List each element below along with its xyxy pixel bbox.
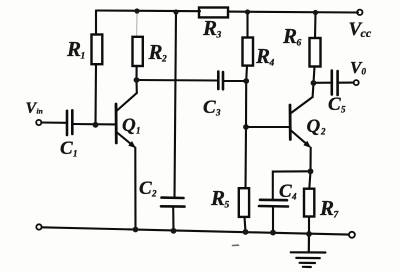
- svg-text:5: 5: [225, 201, 230, 211]
- node R6 bottom: [311, 80, 317, 86]
- resistor R6: [310, 38, 321, 67]
- node rail ground: [306, 231, 312, 237]
- svg-text:C: C: [279, 181, 292, 202]
- svg-text:1: 1: [81, 52, 86, 62]
- svg-text:R: R: [210, 186, 225, 210]
- wire base node down to R5: [244, 127, 247, 188]
- capacitor C4: [259, 200, 288, 207]
- node Q1 base: [93, 122, 99, 128]
- svg-text:R: R: [282, 24, 297, 48]
- resistor R2: [133, 37, 143, 66]
- wire R6 bottom: [314, 67, 315, 84]
- wire R2 top stub: [136, 13, 138, 37]
- node top rail R6: [313, 10, 318, 15]
- wire R2 bottom to C3: [137, 79, 218, 82]
- wire C2 bottom: [172, 207, 174, 231]
- resistor R7: [304, 189, 314, 217]
- svg-text:Q: Q: [307, 116, 321, 137]
- wire smudge mark: [233, 244, 239, 246]
- wire R1 bottom: [94, 64, 97, 125]
- wire R6 top stub: [314, 13, 317, 39]
- wire Q1 emitter down: [134, 148, 136, 230]
- svg-text:Q: Q: [122, 115, 136, 136]
- resistor R3: [199, 8, 228, 18]
- svg-text:R: R: [319, 196, 334, 220]
- svg-text:2: 2: [151, 189, 157, 199]
- capacitor C2: [161, 198, 185, 207]
- svg-text:R: R: [202, 16, 217, 40]
- node Q2 base tap: [243, 124, 249, 130]
- wire R4 bottom: [245, 66, 248, 81]
- node R2 bottom: [134, 77, 140, 83]
- node R4 bottom: [243, 78, 249, 84]
- transistor Q2: [290, 97, 313, 148]
- svg-text:C: C: [203, 97, 216, 118]
- svg-text:4: 4: [269, 59, 275, 69]
- node Q2 emitter: [308, 168, 314, 174]
- wire base node to Q2: [246, 126, 289, 128]
- terminal V0: [354, 80, 359, 85]
- svg-text:cc: cc: [361, 26, 372, 40]
- svg-text:6: 6: [297, 39, 302, 49]
- wire C4 bottom: [272, 207, 274, 233]
- wire Vin to C1: [41, 121, 66, 123]
- wire R5 bottom: [245, 217, 246, 232]
- svg-text:5: 5: [341, 105, 346, 115]
- node top rail center: [173, 9, 178, 14]
- wire top rail left segment: [96, 9, 200, 12]
- wire bottom rail: [42, 227, 349, 234]
- svg-text:0: 0: [362, 67, 367, 77]
- node rail C4: [270, 230, 276, 236]
- node rail Q1 emitter: [133, 227, 139, 233]
- node rail C2: [171, 228, 177, 234]
- svg-text:C: C: [328, 94, 341, 115]
- svg-text:R: R: [255, 44, 270, 68]
- terminal bottom right: [349, 232, 355, 238]
- wire Q2 node to C5: [314, 82, 332, 84]
- svg-text:7: 7: [334, 211, 340, 221]
- terminal bottom left: [36, 224, 41, 229]
- svg-text:1: 1: [136, 126, 141, 136]
- wire Q1 collector up: [135, 80, 137, 93]
- svg-text:2: 2: [320, 127, 326, 137]
- capacitor C1: [67, 110, 72, 135]
- wire R7 top stub: [309, 171, 310, 188]
- svg-text:3: 3: [215, 108, 221, 118]
- wire R4 top stub: [246, 12, 248, 38]
- wire C5 to V0 terminal: [339, 82, 354, 84]
- resistor R5: [239, 188, 249, 217]
- terminal Vcc: [357, 10, 362, 15]
- wire R1 top branch: [95, 11, 97, 35]
- svg-text:4: 4: [291, 192, 297, 202]
- wire R7 bottom: [308, 217, 310, 234]
- ground: [291, 234, 326, 267]
- svg-text:R: R: [66, 37, 81, 61]
- wire Q2 collector up: [312, 83, 315, 97]
- svg-text:3: 3: [216, 31, 222, 41]
- capacitor C3: [218, 72, 223, 90]
- wire center vertical Vcc-to-C2: [175, 12, 177, 197]
- capacitor C5: [332, 71, 338, 96]
- node top rail R4: [245, 9, 250, 14]
- svg-text:R: R: [148, 40, 163, 64]
- resistor R1: [92, 35, 103, 65]
- wire C3 to R4 node: [224, 80, 246, 82]
- svg-text:in: in: [37, 107, 43, 116]
- resistor R4: [243, 38, 254, 66]
- terminal Vin: [36, 120, 41, 125]
- wire C1 to Q1 base: [73, 123, 115, 126]
- wire R4 node down to base node: [245, 81, 247, 127]
- svg-text:C: C: [60, 138, 73, 159]
- node top rail R2: [134, 8, 139, 13]
- wire emitter node to C4: [273, 171, 311, 199]
- svg-text:C: C: [139, 178, 152, 199]
- wire R2 bottom: [135, 66, 137, 80]
- svg-text:1: 1: [73, 149, 78, 159]
- svg-text:2: 2: [161, 55, 167, 65]
- wire top rail right segment: [229, 11, 359, 14]
- wire Q2 emitter down: [309, 148, 311, 172]
- node rail R5: [243, 229, 249, 235]
- transistor Q1: [116, 93, 137, 148]
